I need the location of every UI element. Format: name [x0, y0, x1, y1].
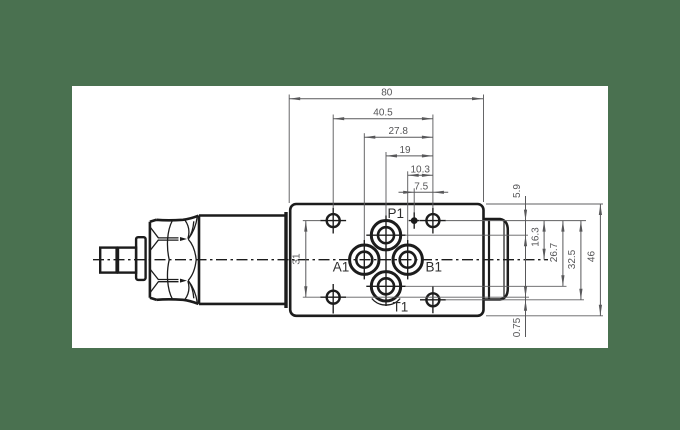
arrows dim 0.75 outside — [524, 286, 527, 297]
locknut — [136, 237, 146, 280]
dim 32.5 line — [580, 221, 582, 300]
dim 46 line — [599, 204, 601, 316]
svg-text:32.5: 32.5 — [567, 249, 578, 269]
end cap hex flat line — [488, 220, 490, 300]
dim 7.5 line (outside arrows) — [399, 191, 449, 193]
knob knurl pattern — [151, 217, 198, 303]
svg-text:B1: B1 — [426, 259, 443, 274]
ext line T1 row (26.7) — [406, 285, 567, 287]
ext line block left edge (80) — [288, 95, 290, 204]
mounting hole bottom-left crosshair — [320, 284, 346, 314]
arrows dim 26.7 — [561, 221, 564, 232]
arrows dim 5.9 outside — [524, 210, 527, 221]
mounting hole bottom-left — [327, 291, 340, 304]
arrows dim 80 — [289, 97, 300, 100]
ext line bottom-left hole row (31 and 0.75) — [303, 296, 529, 298]
svg-text:0.75: 0.75 — [512, 317, 523, 337]
knurled adjustment knob outline — [150, 216, 199, 304]
ext line bottom-right hole row (32.5 and 0.75) — [446, 299, 584, 301]
dim 5.9 and 0.75 shared line — [525, 196, 527, 337]
svg-text:10.3: 10.3 — [410, 164, 430, 175]
cylinder end flange line — [284, 212, 287, 308]
ext line B1 column (10.3) — [407, 171, 409, 240]
svg-text:T1: T1 — [393, 300, 409, 315]
ext line pin column (7.5) — [413, 188, 415, 212]
dim 19 line — [386, 155, 433, 157]
ext line P1/T1 column (19) — [385, 152, 387, 216]
svg-text:5.9: 5.9 — [512, 184, 523, 198]
arrows dim 27.8 — [364, 136, 375, 139]
mounting hole bottom-right — [426, 293, 439, 306]
arrows dim 32.5 — [579, 221, 582, 232]
dim 16.3 line — [543, 221, 545, 260]
dimension lines with arrows — [289, 99, 600, 337]
arrowheads — [289, 97, 602, 316]
svg-text:27.8: 27.8 — [388, 126, 408, 137]
svg-text:46: 46 — [586, 251, 597, 263]
adjustment screw stem square 1 — [100, 248, 116, 273]
arrows dim 46 — [599, 204, 602, 215]
arrows dim 16.3 — [543, 221, 546, 232]
mounting hole top-right — [426, 214, 439, 227]
port P1 crosshair — [366, 216, 405, 307]
svg-text:7.5: 7.5 — [414, 181, 428, 192]
svg-text:40.5: 40.5 — [373, 108, 393, 119]
ext line bottom edge row (46) — [486, 315, 603, 317]
ext line 31 top — [303, 220, 321, 222]
dim 27.8 line — [364, 136, 433, 138]
port labels — [333, 206, 442, 315]
knob knurl groove tips — [180, 237, 187, 283]
svg-text:31: 31 — [292, 253, 303, 265]
ext line A1 column (27.8) — [363, 133, 365, 240]
svg-text:16.3: 16.3 — [530, 227, 541, 247]
adjustment screw stem square 2 — [118, 248, 136, 273]
wire: horizontal center axis dash-dot line — [93, 259, 548, 261]
mounting hole top-right crosshair — [420, 208, 446, 234]
ext line block right edge (80) — [483, 95, 485, 203]
mounting hole top-left crosshair — [320, 208, 346, 234]
end cap inner edge line — [503, 222, 505, 297]
thin extension and crosshair lines — [289, 95, 603, 316]
ext line top hole row (5.9 16.3 26.7 32.5) — [446, 220, 586, 222]
locating pin dot — [411, 217, 418, 224]
port T1 horizontal crosshair — [366, 285, 405, 287]
arrows dim 7.5 outside — [403, 191, 414, 194]
arrows dim 31 — [304, 221, 307, 232]
ext line TR hole column (shared) — [432, 115, 434, 208]
dim 40.5 line — [333, 118, 433, 120]
dim 26.7 line — [562, 221, 564, 287]
dimension texts — [292, 88, 598, 338]
arrows dim 40.5 — [333, 117, 344, 120]
mounting hole bottom-right crosshair — [420, 286, 446, 313]
locating pin crosshair ticks — [409, 212, 420, 228]
port T1 counterbore arc — [372, 299, 400, 306]
port A1 — [350, 245, 379, 274]
svg-text:P1: P1 — [388, 206, 405, 221]
svg-text:A1: A1 — [333, 259, 350, 274]
ext line top edge row (46) — [486, 203, 603, 205]
dim 10.3 line — [408, 174, 433, 176]
port A1 vertical crosshair — [363, 240, 365, 279]
mounting hole top-left — [327, 214, 340, 227]
port B1 vertical crosshair — [407, 240, 409, 279]
valve body block — [290, 204, 483, 316]
port P1 — [371, 221, 400, 250]
dim 80 line — [289, 98, 483, 100]
port B1 — [393, 245, 422, 274]
ext line TL hole column (40.5) — [332, 115, 334, 208]
end cap (hex plug) — [484, 219, 508, 300]
arrows dim 10.3 — [408, 174, 419, 177]
dim 31 line — [305, 221, 307, 298]
svg-text:19: 19 — [399, 145, 411, 156]
ext line P1 row (5.9) — [406, 234, 528, 236]
port T1 — [371, 272, 400, 301]
arrows dim 19 — [386, 154, 397, 157]
spring housing cylinder — [199, 216, 287, 304]
svg-text:80: 80 — [381, 88, 393, 99]
svg-text:26.7: 26.7 — [549, 242, 560, 262]
